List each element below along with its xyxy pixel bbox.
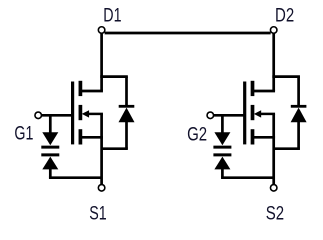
wire: body diode anode down and left to source	[102, 121, 128, 149]
label D1	[103, 4, 121, 25]
MOSFET Q1 channel segments (drain/body/source)	[79, 81, 83, 145]
svg-text:G2: G2	[187, 124, 207, 145]
wire: body diode anode down and left to source	[274, 121, 300, 149]
wire: drain vertical from D2 to Q2	[272, 33, 275, 91]
wire: branch to body diode cathode	[100, 77, 128, 107]
MOSFET Q2 source lead	[253, 136, 275, 139]
terminal G2 (open circle)	[207, 112, 214, 119]
svg-text:G1: G1	[14, 122, 33, 143]
wire: source vertical down to S2	[272, 114, 275, 185]
MOSFET Q1 source lead	[81, 136, 103, 139]
gate protection diode pair (back-to-back) at G1	[41, 115, 59, 177]
body diode of Q2 (cathode up)	[291, 106, 307, 122]
wire: drain bus connecting D1 and D2	[105, 32, 271, 35]
svg-text:D2: D2	[275, 5, 294, 26]
svg-text:S2: S2	[266, 203, 284, 224]
terminal D2 (open circle)	[270, 27, 277, 34]
n-channel MOSFET Q2 gate bar	[243, 82, 246, 145]
svg-text:S1: S1	[89, 203, 106, 224]
MOSFET Q2 body lead with arrow (points to channel)	[254, 110, 275, 117]
wire: diode pair bottom to source	[49, 176, 102, 179]
body diode of Q1 (cathode up)	[119, 106, 135, 122]
label D2	[275, 5, 294, 26]
MOSFET Q2 channel segments (drain/body/source)	[251, 81, 255, 145]
MOSFET Q1 body lead with arrow (points to channel)	[82, 110, 103, 117]
wire: gate lead G1 to gate bar	[42, 114, 73, 117]
wire: source vertical down to S1	[100, 114, 103, 185]
terminal S1 (open circle)	[98, 185, 105, 192]
terminal D1 (open circle)	[98, 27, 105, 34]
label G1	[14, 122, 33, 143]
svg-text:D1: D1	[103, 4, 121, 25]
label S1	[89, 203, 106, 224]
terminal S2 (open circle)	[270, 185, 277, 192]
MOSFET Q2 drain lead	[253, 90, 275, 93]
gate protection diode pair (back-to-back) at G2	[213, 115, 231, 177]
wire: gate lead G2 to gate bar	[214, 114, 245, 117]
label G2	[187, 124, 207, 145]
label S2	[266, 203, 284, 224]
terminal G1 (open circle)	[35, 112, 42, 119]
wire: drain vertical from D1 to Q1	[100, 33, 103, 91]
wire: diode pair bottom to source	[221, 176, 274, 179]
n-channel MOSFET Q1 gate bar	[71, 82, 74, 145]
MOSFET Q1 drain lead	[81, 90, 103, 93]
wire: branch to body diode cathode	[272, 77, 300, 107]
